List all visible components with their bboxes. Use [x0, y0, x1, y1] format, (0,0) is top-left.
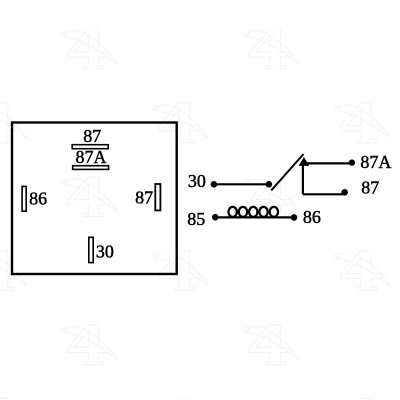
svg-text:85: 85 [187, 209, 205, 229]
pin 30 blade (bottom vertical) [89, 237, 93, 262]
switch arm SW1 [271, 154, 303, 190]
watermark tiles (decorative) [62, 29, 118, 69]
switch common junction dot [266, 181, 273, 188]
terminal 85 node dot [212, 214, 219, 221]
svg-text:87A: 87A [76, 147, 107, 167]
pin 87 blade (right vertical) [155, 184, 160, 210]
switch arm arrowhead [299, 157, 310, 166]
terminal 87 node dot [341, 189, 348, 196]
svg-text:86: 86 [29, 189, 47, 209]
svg-text:87: 87 [361, 177, 379, 197]
wire 30 to switch common [214, 183, 269, 185]
svg-text:87A: 87A [360, 152, 391, 172]
wire to 87 [303, 193, 343, 195]
svg-text:86: 86 [303, 207, 321, 227]
svg-text:30: 30 [188, 171, 206, 191]
relay coil L1 loop 1 [228, 207, 236, 217]
svg-text:30: 30 [96, 242, 114, 262]
svg-text:87: 87 [83, 126, 101, 146]
wire vertical contact bar [302, 162, 304, 194]
wire coil bottom [215, 216, 294, 218]
wire to 87A [303, 162, 350, 164]
terminal 86 node dot [291, 214, 298, 221]
pin 87 blade (top horizontal) [72, 145, 108, 149]
relay coil L1 loop 4 [259, 207, 267, 217]
terminal 87A node dot [349, 159, 355, 165]
pin 87A blade (horizontal) [73, 166, 109, 170]
pin 86 blade (left vertical) [22, 186, 26, 211]
relay coil L1 loop 3 [249, 207, 257, 217]
relay coil L1 loop 2 [239, 207, 247, 217]
terminal 30 node dot [211, 181, 218, 188]
svg-text:87: 87 [135, 188, 153, 208]
relay body outline K1 [12, 123, 177, 275]
relay coil L1 loop 5 [270, 207, 278, 217]
